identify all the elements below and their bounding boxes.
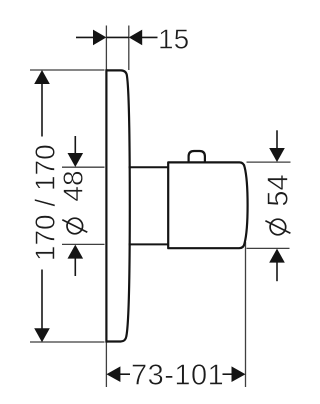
- arrowhead dia54 top: [269, 148, 285, 162]
- wire: 170/170 bottom extension line: [30, 341, 105, 343]
- wire: dia48 bottom arrow leader: [74, 258, 76, 276]
- extension lines (lighter): [30, 26, 291, 388]
- arrowhead 170/170 bottom: [34, 328, 50, 342]
- arrowhead 15 right: [129, 30, 142, 46]
- wire: dia48 bottom extension line: [62, 243, 105, 245]
- svg-text:48: 48: [58, 170, 89, 201]
- wire: 170/170 top extension line: [30, 69, 105, 71]
- dimension lines (darker): [42, 37, 277, 374]
- svg-text:54: 54: [263, 174, 295, 206]
- arrowhead 15 left: [93, 30, 106, 46]
- arrowhead dia48 bottom: [68, 245, 84, 259]
- escutcheon plate (side profile): [106, 69, 129, 342]
- sleeve (48mm stem): [129, 167, 169, 244]
- wire: dia54 bottom extension line: [247, 247, 290, 249]
- wire: 170/170 dim line upper segment: [41, 83, 43, 137]
- wire: 73-101 left extension line: [105, 342, 107, 387]
- handle knob (54mm): [168, 162, 247, 248]
- wire: wall extension line above plate: [105, 26, 107, 71]
- arrowhead 73-101 right: [232, 366, 246, 382]
- wire: plate-front extension line (dim 15): [128, 26, 130, 71]
- diameter symbol for 54: [265, 219, 290, 235]
- plate back edge / wall line: [105, 69, 107, 342]
- arrowhead 170/170 top: [34, 70, 50, 84]
- arrowhead dia48 top: [68, 153, 84, 167]
- wire: 170/170 dim line lower segment: [41, 270, 43, 330]
- svg-text:15: 15: [158, 23, 189, 54]
- wire: dia54 top arrow leader: [276, 130, 278, 149]
- wire: 73-101 dim line right stub: [223, 373, 233, 375]
- wire: dim line 15 right tail: [141, 36, 158, 38]
- button on top of handle: [189, 151, 205, 163]
- wire: dia48 top extension line: [62, 166, 105, 168]
- wire: dia48 top arrow leader: [74, 136, 76, 154]
- arrowhead dia54 bottom: [269, 249, 285, 263]
- wire: dia54 bottom arrow leader: [276, 262, 278, 281]
- wire: 73-101 dim line left stub: [119, 373, 130, 375]
- svg-text:170 / 170: 170 / 170: [30, 144, 61, 261]
- svg-text:73-101: 73-101: [131, 359, 224, 391]
- wire: 73-101 right extension line: [245, 242, 247, 387]
- diameter symbol for 48: [62, 218, 87, 234]
- wire: dim line 15 left tail: [76, 36, 94, 38]
- wire: dim line 15 middle: [106, 36, 128, 38]
- arrowhead 73-101 left: [106, 366, 120, 382]
- wire: dia54 top extension line: [247, 161, 291, 163]
